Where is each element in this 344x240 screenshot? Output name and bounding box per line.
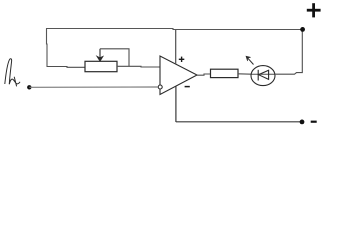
LED D1 circle <box>251 66 275 86</box>
handwritten label x flourish <box>9 77 20 87</box>
op-amp U1 triangle <box>160 56 197 95</box>
op-amp inverting input bubble <box>158 85 162 89</box>
wire resistor to LED <box>238 73 252 75</box>
wire through LED body <box>252 73 276 75</box>
wire potentiometer right terminal to op-amp non-inverting input <box>117 65 160 68</box>
node V- junction dot <box>300 120 305 125</box>
wire inverting input from terminal dot to bubble <box>29 86 157 88</box>
wire left vertical of feedback loop <box>46 29 49 67</box>
node V+ junction dot <box>300 27 305 32</box>
LED D1 diode triangle <box>259 70 269 79</box>
wire from loop corner to potentiometer left terminal <box>47 66 86 69</box>
resistor R1 body <box>211 69 239 77</box>
wire LED to V+ vertical riser <box>275 30 302 75</box>
LED D1 cathode bar <box>257 70 259 81</box>
handwritten input label script <box>5 59 12 84</box>
op-amp plus label <box>179 57 185 62</box>
wire op-amp V+ power pin to top rail <box>175 30 177 65</box>
node input terminal dot <box>27 85 31 89</box>
potentiometer P1 body <box>85 61 117 71</box>
op-amp minus label <box>185 86 190 88</box>
wire op-amp output to resistor <box>197 74 211 75</box>
V- supply minus symbol <box>311 121 317 123</box>
wire top rail from feedback loop to V+ node <box>46 29 303 30</box>
wire op-amp V- power pin down to bottom rail <box>175 87 177 123</box>
V+ supply plus symbol <box>307 3 321 17</box>
LED emission arrow <box>246 56 254 64</box>
potentiometer wiper arrow <box>97 49 103 61</box>
wire wiper loop to output side <box>100 49 129 66</box>
wire bottom rail to V- node <box>176 121 302 123</box>
